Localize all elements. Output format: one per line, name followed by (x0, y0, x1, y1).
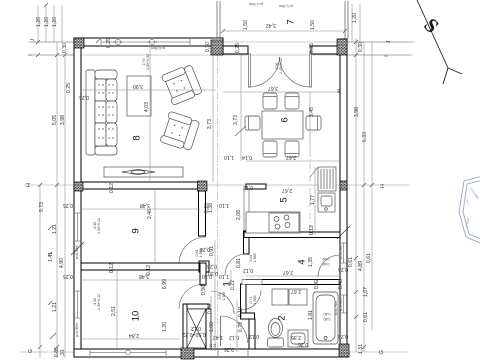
svg-text:0,61: 0,61 (363, 312, 369, 322)
closet walls (183, 304, 209, 349)
svg-text:4,03: 4,03 (144, 102, 150, 112)
washbasin (288, 330, 308, 347)
living width dim line (81, 89, 216, 91)
washing machine bath top (272, 289, 307, 305)
svg-text:1,50: 1,50 (310, 20, 316, 30)
svg-text:0,25: 0,25 (309, 43, 315, 53)
svg-text:0,66: 0,66 (323, 257, 330, 261)
kitchen stub walls (246, 184, 266, 235)
svg-text:p=0,70m: p=0,70m (334, 301, 338, 315)
svg-text:H: H (380, 184, 386, 188)
svg-text:2,08: 2,08 (236, 210, 242, 220)
svg-text:0,12: 0,12 (309, 225, 315, 235)
entry door opening bottom (218, 350, 248, 356)
left wall window 1 frame (75, 213, 81, 241)
svg-text:3,73: 3,73 (233, 115, 239, 125)
hatched column C8 (181, 348, 194, 359)
svg-text:0,42: 0,42 (314, 279, 320, 289)
svg-text:4,89: 4,89 (358, 261, 364, 271)
svg-text:1,77: 1,77 (310, 195, 316, 205)
svg-text:2,67: 2,67 (282, 187, 292, 193)
svg-text:1,42: 1,42 (213, 334, 223, 340)
left dimension chain lines (30, 5, 74, 358)
svg-text:I: I (384, 55, 390, 56)
corridor dim lines bottom (211, 240, 237, 352)
door bath arc (241, 290, 261, 310)
svg-text:0,80: 0,80 (324, 312, 331, 316)
svg-text:0,12: 0,12 (243, 267, 253, 273)
french door arcs (249, 57, 311, 87)
svg-text:0,12: 0,12 (109, 183, 115, 193)
tv sideboard (104, 167, 183, 177)
svg-text:3,67: 3,67 (268, 85, 278, 91)
svg-text:J: J (30, 38, 36, 41)
svg-text:0,20: 0,20 (204, 203, 210, 213)
svg-text:0,12: 0,12 (109, 263, 115, 273)
top wall dining (lower band) (223, 46, 338, 54)
svg-text:p=1,15m: p=1,15m (279, 4, 293, 8)
svg-text:0,30: 0,30 (358, 42, 364, 52)
svg-text:1,35: 1,35 (308, 257, 314, 267)
closet with X brace (187, 309, 206, 348)
svg-text:,31: ,31 (60, 349, 66, 356)
svg-text:0,14: 0,14 (242, 154, 252, 160)
svg-text:1,50+0,22: 1,50+0,22 (97, 218, 101, 234)
svg-text:1,985: 1,985 (222, 292, 226, 301)
tick marks on dimension chains (36, 3, 374, 349)
svg-text:1,20: 1,20 (52, 17, 58, 27)
spine wall right of closet (206, 309, 211, 349)
hatched column C3 (337, 39, 347, 55)
svg-text:0,30: 0,30 (62, 43, 68, 53)
kitchen fridge (318, 167, 336, 191)
svg-text:0,25: 0,25 (338, 266, 348, 272)
top wall living (74, 38, 223, 46)
svg-text:p=1,70m: p=1,70m (339, 245, 343, 259)
svg-text:4: 4 (297, 259, 308, 264)
svg-text:1,10: 1,10 (224, 154, 234, 160)
svg-text:4,90: 4,90 (59, 258, 65, 268)
svg-text:3,90: 3,90 (133, 83, 143, 89)
svg-text:0,12: 0,12 (249, 333, 259, 339)
svg-text:2,51: 2,51 (111, 306, 117, 316)
wall jog corridor/bath (241, 313, 255, 319)
svg-text:H: H (26, 183, 32, 187)
corridor east wall V2 upper thin (244, 189, 249, 231)
svg-text:0,26: 0,26 (298, 341, 308, 347)
svg-text:1,10: 1,10 (219, 202, 229, 208)
svg-text:0,30: 0,30 (205, 42, 211, 52)
svg-text:G: G (379, 350, 385, 354)
svg-text:0,12: 0,12 (191, 325, 201, 331)
svg-text:2,67: 2,67 (286, 154, 296, 160)
hatched column C7 (339, 344, 349, 357)
svg-text:0,66: 0,66 (323, 262, 330, 266)
terrace dim line (223, 30, 345, 32)
axis dashdot living/dining (217, 55, 219, 349)
right wall window 3 frame (341, 243, 347, 263)
toilet (268, 319, 284, 348)
svg-text:3,73: 3,73 (207, 119, 213, 129)
svg-text:1,21: 1,21 (52, 302, 58, 312)
svg-text:1,50+0,32: 1,50+0,32 (146, 54, 150, 70)
svg-text:1,20: 1,20 (162, 322, 168, 332)
grid line J (28, 41, 415, 43)
kitchen sink unit (318, 193, 335, 212)
dining dims (223, 91, 340, 93)
svg-text:0,25: 0,25 (106, 38, 112, 48)
door hall4 east arc (318, 255, 340, 277)
svg-text:0,61: 0,61 (348, 257, 354, 267)
grid line I (28, 54, 413, 56)
bathtub (313, 292, 338, 344)
kitchen counter + stove (246, 212, 300, 233)
door bed10 arc (179, 284, 204, 309)
svg-text:0,26: 0,26 (200, 246, 210, 252)
svg-text:1,985: 1,985 (253, 296, 257, 305)
svg-text:3,48: 3,48 (140, 202, 150, 208)
living height dim line (149, 46, 151, 182)
sofa dots (98, 84, 113, 138)
svg-text:1,20: 1,20 (352, 13, 358, 23)
grid line H (24, 184, 410, 186)
left exterior wall (74, 38, 81, 357)
svg-text:1,31: 1,31 (358, 344, 364, 354)
svg-text:p=0,90m: p=0,90m (339, 297, 343, 311)
top window frame (101, 39, 190, 45)
svg-text:2,46: 2,46 (147, 209, 153, 219)
door kitchen arc (225, 254, 246, 275)
svg-text:3,45: 3,45 (309, 107, 315, 117)
grid line G (20, 351, 408, 353)
svg-text:0,80: 0,80 (324, 317, 331, 321)
sofa living (86, 70, 117, 155)
svg-text:0,25: 0,25 (66, 83, 72, 93)
corridor east wall V2 lower dark (241, 284, 247, 315)
right exterior wall (340, 39, 347, 357)
hatched column C1 (74, 38, 84, 48)
svg-text:0,30: 0,30 (202, 273, 212, 279)
svg-text:p=1,10m: p=1,10m (249, 2, 263, 6)
svg-text:p=0,90m: p=0,90m (75, 323, 79, 337)
svg-text:1,07: 1,07 (363, 287, 369, 297)
jamb stub bed9/bed10 east (199, 261, 209, 272)
svg-text:0,79: 0,79 (238, 322, 244, 332)
svg-text:0,99: 0,99 (162, 279, 168, 289)
svg-text:1,08: 1,08 (209, 322, 215, 332)
svg-text:0,12: 0,12 (243, 184, 253, 190)
svg-text:2,67: 2,67 (291, 288, 301, 294)
svg-text:9: 9 (131, 228, 142, 233)
svg-text:5,05: 5,05 (52, 115, 58, 125)
svg-text:7: 7 (286, 19, 297, 24)
hatched column C2 (211, 40, 223, 55)
svg-text:9,73: 9,73 (39, 202, 45, 212)
hatched column C5 (198, 181, 208, 191)
hatched column C6 (340, 181, 347, 190)
svg-text:2,40+0,22: 2,40+0,22 (279, 58, 283, 74)
svg-text:0,25: 0,25 (338, 333, 348, 339)
svg-text:0,48: 0,48 (338, 279, 344, 289)
svg-text:1,50+0,22: 1,50+0,22 (97, 294, 101, 310)
svg-text:1,21: 1,21 (52, 224, 58, 234)
svg-text:3,98: 3,98 (354, 107, 360, 117)
svg-text:0,25: 0,25 (207, 263, 217, 269)
right dimension chain lines (348, 38, 412, 352)
bottom exterior wall (74, 349, 348, 357)
svg-text:6: 6 (280, 117, 291, 122)
svg-text:1,985: 1,985 (253, 254, 257, 263)
svg-text:1,10: 1,10 (219, 273, 229, 279)
corridor east wall V2 dark segment (244, 231, 250, 254)
door bed9 arc (179, 237, 206, 264)
svg-text:1,20: 1,20 (44, 17, 50, 27)
kitchen dims (246, 160, 340, 162)
corridor west wall V1 upper (199, 191, 206, 236)
svg-text:5: 5 (279, 197, 290, 202)
coffee table (127, 76, 151, 116)
bed10 dims (81, 279, 199, 281)
dining chairs (245, 93, 321, 157)
svg-text:0,61: 0,61 (366, 253, 372, 263)
svg-text:0,26: 0,26 (224, 346, 234, 352)
svg-text:0,25: 0,25 (79, 94, 89, 100)
entry door arc (221, 316, 248, 346)
svg-text:0,25: 0,25 (63, 273, 73, 279)
svg-text:10: 10 (131, 311, 142, 322)
hatched column C4 (74, 182, 83, 191)
svg-text:0,76: 0,76 (207, 304, 213, 314)
section tick right wall (337, 226, 350, 239)
svg-text:0,12: 0,12 (229, 334, 239, 340)
svg-text:1,50: 1,50 (243, 20, 249, 30)
svg-text:0,19: 0,19 (238, 307, 244, 317)
hall4 dims (246, 275, 340, 277)
kitchen diagonal mark (310, 167, 318, 177)
svg-text:3,42: 3,42 (266, 22, 276, 28)
svg-text:0,96: 0,96 (201, 285, 207, 295)
wall hall4/bath2 (242, 280, 340, 285)
svg-text:p=0,90m: p=0,90m (151, 46, 165, 50)
interior wall living/bed9 (81, 182, 205, 189)
bed9 dims (81, 208, 200, 210)
svg-text:2,35: 2,35 (291, 334, 301, 340)
bottom window 5 frame (90, 350, 166, 356)
svg-text:2,67: 2,67 (283, 269, 293, 275)
french door dining north leaves (248, 54, 311, 87)
section tick left wall (71, 242, 84, 255)
svg-text:G: G (28, 349, 34, 353)
svg-text:2,84: 2,84 (129, 332, 139, 338)
dining table (262, 111, 303, 139)
svg-text:p=0,90m: p=0,90m (75, 245, 79, 259)
svg-text:2: 2 (277, 315, 288, 320)
right wall window 4 frame (341, 295, 347, 313)
svg-text:1,20: 1,20 (36, 17, 42, 27)
svg-text:0,25: 0,25 (63, 202, 73, 208)
corridor inner door arc (211, 291, 234, 314)
corridor west wall V1 mid (200, 263, 206, 285)
svg-text:3,98: 3,98 (60, 115, 66, 125)
terrace edge lines (217, 1, 348, 39)
wall kitchen/hall4 (244, 232, 340, 238)
svg-text:0,25: 0,25 (235, 43, 241, 53)
svg-text:8: 8 (132, 135, 143, 140)
svg-text:0,81: 0,81 (236, 258, 242, 268)
svg-text:0,12: 0,12 (146, 265, 152, 275)
axis dashdot kitchen (309, 150, 311, 238)
interior wall bed9/bed10 (81, 263, 199, 270)
left wall window 2 frame (75, 291, 81, 318)
armchair 2 (160, 111, 200, 151)
armchair 1 (161, 64, 203, 106)
svg-text:1,81: 1,81 (308, 310, 314, 320)
svg-text:6,33: 6,33 (362, 132, 368, 142)
